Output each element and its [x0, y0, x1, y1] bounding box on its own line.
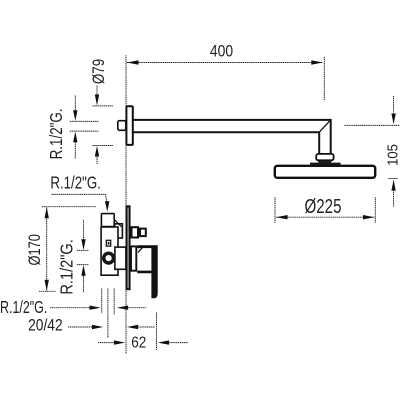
- dimension Ø170 bottom extension: [39, 290, 56, 292]
- head connector nut: [316, 154, 333, 160]
- extension line A: [101, 289, 103, 314]
- svg-text:105: 105: [385, 144, 400, 166]
- dimension 400 line: [127, 62, 323, 64]
- shower head disc: [275, 166, 375, 178]
- dimension R.1/2"G. upper top arrow: [74, 96, 76, 112]
- head top plate strip: [310, 163, 341, 166]
- dimension Ø79 top arrow: [96, 86, 98, 97]
- dimension 62 right-pointing arrow: [98, 342, 115, 344]
- shower arm bottom line: [133, 131, 319, 133]
- valve outlet ring: [102, 252, 115, 265]
- valve cartridge block: [115, 247, 126, 269]
- svg-text:62: 62: [131, 335, 146, 352]
- svg-text:Ø225: Ø225: [305, 196, 342, 218]
- dimension R.1/2"G. upper ticks: [70, 120, 99, 122]
- dimension Ø225 left extension: [274, 197, 276, 223]
- arm wall flange: [126, 106, 132, 145]
- valve small screw box: [106, 240, 110, 246]
- dimension 400 extension line right: [323, 57, 325, 100]
- dimension R.1/2"G. lower top arrow: [83, 220, 85, 240]
- extension line C: [113, 289, 115, 316]
- elbow diagonal: [319, 120, 331, 132]
- valve step connector: [115, 224, 123, 238]
- handle flange: [131, 246, 136, 270]
- valve top inlet box: [101, 214, 114, 227]
- svg-text:400: 400: [210, 42, 233, 61]
- diverter stem 1: [132, 227, 139, 237]
- shower arm top line: [133, 119, 330, 121]
- wall line: [125, 55, 127, 354]
- dimension R.1/2"G. lower ticks: [77, 249, 89, 251]
- dimension 400 right arrow: [311, 60, 323, 64]
- dimension 62 left-pointing arrow: [158, 340, 169, 344]
- valve wall plate: [127, 206, 130, 289]
- svg-text:R.1/2"G.: R.1/2"G.: [0, 297, 47, 317]
- dimension Ø170 down arrow: [45, 280, 49, 291]
- dimension 105 bottom tick: [389, 178, 398, 180]
- dimension R.1/2"G. upper bottom arrow: [74, 142, 76, 159]
- svg-text:Ø170: Ø170: [25, 234, 44, 265]
- dimension Ø225 line: [276, 216, 375, 218]
- dimension R.1/2"G. lower bottom arrow: [83, 276, 85, 293]
- dimension Ø225 right extension: [374, 197, 376, 223]
- dimension Ø79 bottom arrow: [96, 155, 98, 164]
- svg-text:R.1/2"G.: R.1/2"G.: [50, 173, 101, 193]
- elbow right edge: [330, 119, 332, 154]
- dimension Ø79 bottom tick: [93, 145, 114, 147]
- dimension Ø170 up arrow: [45, 207, 49, 218]
- svg-text:R.1/2"G.: R.1/2"G.: [46, 108, 66, 159]
- dimension 20/42 right-pointing arrow: [68, 326, 93, 328]
- dark wedge under nut: [318, 161, 332, 163]
- dimension Ø79 top tick: [93, 105, 114, 107]
- valve main body: [101, 227, 118, 275]
- handle body diagonal: [138, 248, 142, 253]
- valve screw dot: [108, 242, 110, 245]
- svg-text:R.1/2"G.: R.1/2"G.: [57, 239, 77, 295]
- leader line bent: [52, 194, 107, 202]
- dimension 20/42 left-pointing arrow: [127, 325, 138, 329]
- extension line B centerline: [107, 289, 109, 339]
- dimension Ø225 left arrow: [276, 215, 288, 219]
- dimension Ø170 line: [46, 208, 48, 291]
- handle lever blade: [137, 245, 157, 298]
- dimension 400 left arrow: [127, 60, 139, 64]
- extension line D handle end: [156, 313, 158, 351]
- valve diagonal detail: [115, 220, 122, 227]
- dimension 105 bottom arrow: [391, 180, 395, 191]
- elbow left edge: [318, 132, 320, 154]
- bottom row1 right-pointing arrow: [50, 307, 91, 309]
- leader arrow down: [105, 201, 110, 212]
- dimension 105 extension line at arm center: [345, 124, 400, 126]
- wall nipple R1/2: [118, 121, 126, 131]
- svg-text:20/42: 20/42: [28, 316, 63, 335]
- bottom row1 left-pointing arrow: [117, 306, 128, 310]
- shower arm white body: [133, 119, 331, 154]
- svg-text:Ø79: Ø79: [89, 59, 108, 84]
- diverter stem 2: [140, 229, 146, 237]
- dimension 105 top arrow: [393, 96, 395, 114]
- dimension Ø225 right arrow: [363, 215, 375, 219]
- dimension Ø170 top extension: [42, 206, 96, 208]
